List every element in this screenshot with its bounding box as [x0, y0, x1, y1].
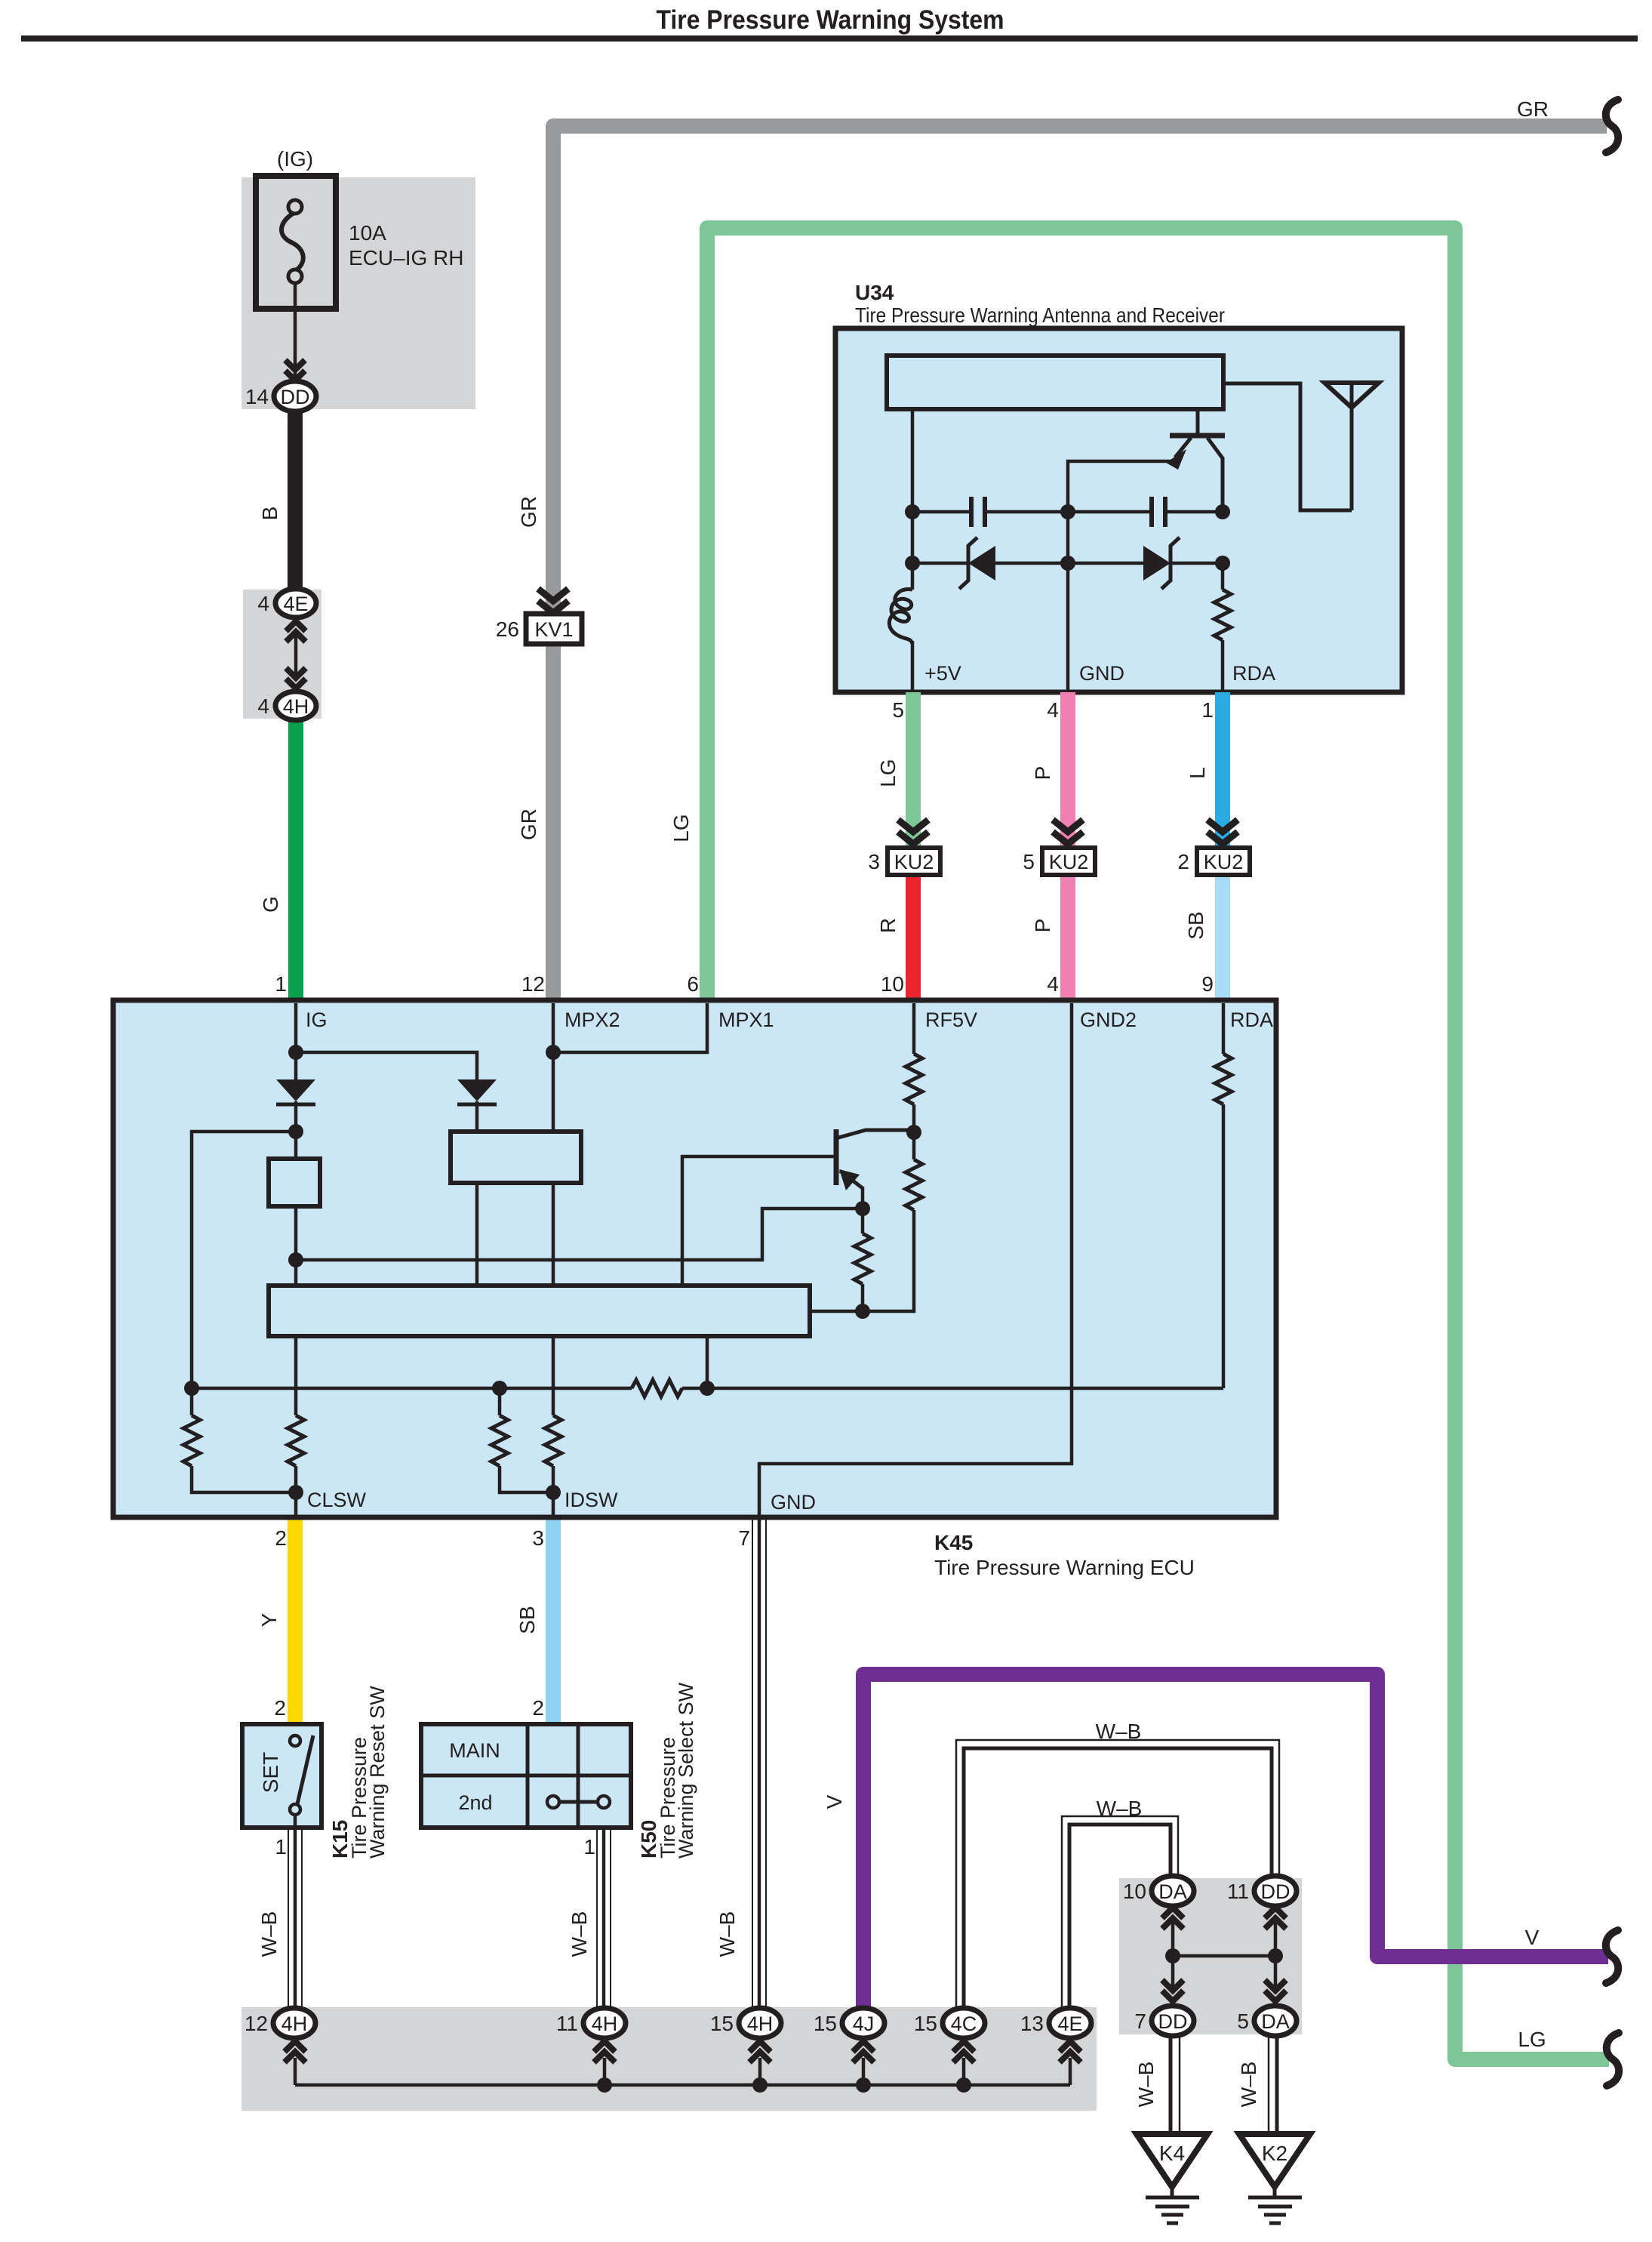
svg-text:2: 2 — [274, 1696, 286, 1720]
svg-text:KV1: KV1 — [534, 618, 573, 641]
node rail IDSW-left — [492, 1381, 507, 1396]
arrow up into 11 4H — [594, 2041, 615, 2052]
wire W-B 5 DA to ground K2 — [1268, 2036, 1270, 2134]
svg-text:Y: Y — [257, 1612, 281, 1627]
title rule line — [21, 35, 1638, 42]
svg-text:B: B — [258, 507, 281, 521]
svg-text:V: V — [823, 1794, 846, 1809]
connector box 3 KU2 — [888, 848, 940, 875]
connector oval 15 4C — [943, 2008, 985, 2038]
svg-text:Tire Pressure Warning ECU: Tire Pressure Warning ECU — [934, 1556, 1195, 1579]
wire B (black) fuse DD to 4E — [288, 408, 303, 591]
wire IDSW drop from bus — [552, 1336, 555, 1415]
svg-text:11: 11 — [556, 2012, 578, 2035]
svg-text:4H: 4H — [281, 2013, 308, 2035]
transistor Q (ECU) emitter with arrow — [840, 1171, 863, 1188]
zener diode D1 (points left) — [912, 562, 968, 565]
svg-text:LG: LG — [1518, 2028, 1546, 2051]
svg-text:MAIN: MAIN — [449, 1739, 500, 1762]
connector shading 4E/4H column — [243, 590, 321, 719]
ground K4 — [1137, 2134, 1207, 2187]
svg-text:W–B: W–B — [715, 1911, 739, 1957]
resistor R7 (IDSW-left) — [498, 1388, 502, 1415]
node resistor bottom — [855, 1304, 870, 1319]
node CLSW — [288, 1485, 303, 1500]
wire R2 to bus — [810, 1210, 914, 1311]
svg-text:15: 15 — [914, 2012, 937, 2035]
wire IG node to diode D2 — [296, 1052, 477, 1079]
wire break squiggle GR — [1606, 100, 1618, 152]
svg-text:K2: K2 — [1262, 2142, 1287, 2165]
wire RF5V internal — [912, 1003, 916, 1054]
svg-text:4: 4 — [257, 694, 269, 718]
node collector junction — [906, 1125, 921, 1140]
fuse contact top — [288, 200, 302, 214]
transistor Q (U34) emitter with arrow — [1175, 438, 1191, 457]
svg-text:4E: 4E — [283, 593, 308, 615]
svg-text:W–B: W–B — [1097, 1797, 1143, 1820]
wire square to CLSW — [294, 1206, 298, 1415]
wire W-B loop 4E to 10 DA — [1062, 1816, 1178, 2009]
svg-text:RF5V: RF5V — [925, 1009, 977, 1031]
wire CLSW to pin — [294, 1492, 298, 1517]
wire break squiggle V — [1606, 1930, 1618, 1983]
wire IC to antenna — [1223, 383, 1352, 510]
svg-text:W–B: W–B — [1096, 1720, 1142, 1743]
connector oval 4H — [275, 691, 316, 720]
U34 Tire Pressure Warning Antenna and Receiver box — [835, 328, 1402, 692]
connector oval 10 DA — [1152, 1876, 1194, 1906]
resistor R3 (emitter) — [854, 1233, 871, 1284]
svg-text:5: 5 — [892, 698, 904, 722]
wire L U34 pin1 to KU2 — [1215, 692, 1230, 861]
svg-text:1: 1 — [275, 972, 287, 996]
inductor L1 — [889, 589, 912, 644]
arrow into KU2 no.5 — [1053, 820, 1083, 832]
svg-text:7: 7 — [738, 1526, 750, 1550]
svg-text:CLSW: CLSW — [307, 1489, 367, 1511]
svg-text:1: 1 — [275, 1835, 287, 1859]
wire LG (light green) MPX1 loop to bottom break — [707, 228, 1609, 2059]
zener diode D2 (points right) — [1068, 562, 1143, 565]
svg-text:IG: IG — [306, 1009, 328, 1031]
resistor R4 (horizontal in rail) — [632, 1380, 682, 1397]
svg-text:(IG): (IG) — [277, 147, 313, 171]
wire W-B loop 4C to 11 DD — [956, 1740, 1279, 2009]
arrow into DD (double chevron down) — [285, 360, 305, 370]
svg-text:3: 3 — [532, 1526, 544, 1550]
svg-text:Warning Reset SW: Warning Reset SW — [366, 1686, 389, 1859]
node dots DA/DD — [1165, 1948, 1180, 1963]
svg-text:6: 6 — [687, 972, 699, 996]
svg-text:11: 11 — [1227, 1880, 1249, 1903]
wire W-B ECU GND to connector 15 4H — [752, 1517, 753, 2009]
connector oval 12 4H — [273, 2008, 315, 2038]
wire Y (yellow) CLSW to K15 — [288, 1517, 303, 1724]
arrow up into 15 4C — [953, 2041, 974, 2052]
DA/DD joint wires — [1171, 1921, 1175, 1993]
svg-text:U34: U34 — [855, 281, 894, 304]
arrow down into 5 DA — [1265, 1980, 1286, 1991]
node dots zener row — [905, 556, 920, 571]
svg-text:LG: LG — [876, 759, 900, 787]
svg-text:P: P — [1031, 919, 1054, 933]
arrow down into 4H — [286, 668, 306, 678]
svg-text:4H: 4H — [592, 2013, 618, 2035]
connector oval 7 DD — [1152, 2006, 1194, 2036]
node emitter — [855, 1201, 870, 1216]
svg-text:12: 12 — [521, 972, 545, 996]
connector oval 13 4E — [1049, 2008, 1091, 2038]
switch contacts K50 (2nd row) — [558, 1800, 598, 1804]
resistor R8 (IDSW) — [545, 1415, 561, 1466]
wire break squiggle LG — [1607, 2033, 1619, 2086]
svg-text:GND2: GND2 — [1080, 1009, 1137, 1031]
svg-text:MPX1: MPX1 — [718, 1009, 774, 1031]
relay coil box (square) — [269, 1159, 320, 1206]
connector oval 15 4J — [842, 2008, 884, 2038]
wire GND vertical — [1066, 512, 1070, 692]
node MPX junction — [546, 1045, 561, 1060]
svg-text:ECU–IG RH: ECU–IG RH — [349, 246, 463, 269]
svg-text:DA: DA — [1261, 2010, 1290, 2033]
svg-text:2: 2 — [1177, 850, 1189, 873]
K15 Tire Pressure Warning Reset SW box — [242, 1724, 321, 1828]
fuse 10A ECU-IG RH box — [256, 176, 336, 309]
svg-text:9: 9 — [1201, 972, 1214, 996]
svg-text:3: 3 — [868, 850, 880, 873]
svg-text:DA: DA — [1158, 1880, 1187, 1903]
svg-text:10A: 10A — [349, 221, 386, 245]
svg-text:P: P — [1031, 766, 1054, 781]
K45 Tire Pressure Warning ECU box — [113, 1000, 1276, 1517]
wire G (green) 4H to ECU IG pin1 — [288, 717, 303, 1000]
arrow into KU2 no.3 — [898, 820, 928, 832]
node IDSW — [546, 1485, 561, 1500]
svg-text:IDSW: IDSW — [565, 1489, 618, 1511]
svg-text:15: 15 — [814, 2012, 837, 2035]
wire fuse to connector DD — [294, 282, 297, 377]
svg-text:4: 4 — [257, 592, 269, 615]
svg-text:Tire Pressure Warning Antenna: Tire Pressure Warning Antenna and Receiv… — [855, 303, 1225, 327]
transistor Q (ECU) base wire — [682, 1156, 834, 1286]
svg-text:MPX2: MPX2 — [565, 1009, 620, 1031]
svg-text:GR: GR — [517, 496, 540, 528]
svg-text:DD: DD — [1261, 1880, 1291, 1903]
transistor Q (ECU) collector — [838, 1130, 911, 1138]
fuse element S-curve — [281, 212, 303, 271]
svg-text:DD: DD — [281, 386, 310, 408]
transistor Q (U34) right leg — [1207, 438, 1223, 512]
wire P U34 pin4 to ECU GND2 — [1060, 692, 1075, 1000]
svg-text:2: 2 — [532, 1696, 544, 1720]
arrow up into 15 4H — [749, 2041, 771, 2052]
wire RDA internal — [1222, 1003, 1226, 1054]
transistor Q (ECU) base bar — [834, 1129, 839, 1185]
capacitor C1 — [912, 510, 971, 514]
svg-text:RDA: RDA — [1232, 662, 1275, 685]
wire R KU2 to ECU RF5V — [906, 861, 921, 1000]
node long-bus branch — [288, 1252, 303, 1267]
junction block ground shading (fuse area) — [241, 177, 475, 409]
switch contact bottom — [290, 1804, 300, 1815]
arrow up into 11 DD — [1265, 1908, 1286, 1918]
svg-text:SB: SB — [1184, 911, 1207, 939]
svg-text:W–B: W–B — [257, 1911, 281, 1957]
svg-text:13: 13 — [1020, 2012, 1044, 2035]
svg-text:SET: SET — [259, 1752, 282, 1793]
svg-text:G: G — [259, 896, 282, 913]
arrow into KV1 (double chevron down) — [538, 589, 568, 601]
wire +5V branch (left vertical) — [911, 409, 915, 590]
wire SB IDSW to K50 — [546, 1517, 561, 1724]
resistor R (U34 RDA) — [1221, 563, 1225, 590]
svg-text:W–B: W–B — [1134, 2062, 1158, 2108]
svg-text:14: 14 — [245, 385, 269, 408]
switch blade K15 — [297, 1735, 313, 1807]
arrow up into 15 4J — [853, 2041, 874, 2052]
connector oval 5 DA — [1254, 2006, 1297, 2036]
svg-text:12: 12 — [245, 2012, 268, 2035]
ground K2 — [1239, 2134, 1310, 2187]
svg-text:DD: DD — [1158, 2010, 1188, 2033]
svg-text:Tire Pressure Warning System: Tire Pressure Warning System — [657, 5, 1004, 35]
wire SB KU2 to ECU RDA — [1215, 861, 1230, 1000]
svg-text:+5V: +5V — [924, 662, 961, 685]
node lower rail at bus drop — [700, 1381, 715, 1396]
connector oval 11 4H — [583, 2008, 626, 2038]
svg-text:4E: 4E — [1057, 2013, 1082, 2035]
node below D1 — [288, 1124, 303, 1139]
resistor R1 (RF5V) — [906, 1054, 922, 1104]
K50 Tire Pressure Warning Select SW box — [421, 1724, 631, 1828]
wire base to GND node — [1068, 461, 1172, 512]
svg-text:1: 1 — [583, 1835, 595, 1859]
wire IG internal — [294, 1003, 298, 1079]
wire contact to box bottom — [294, 1815, 297, 1828]
wire D1 node to left branch — [192, 1132, 296, 1415]
wire inductor to +5V pin — [911, 641, 915, 692]
transistor Q (U34) base bar — [1170, 433, 1225, 439]
svg-text:4: 4 — [1047, 972, 1059, 996]
connector box 2 KU2 — [1197, 848, 1250, 875]
wire MPX1 internal — [553, 1003, 707, 1052]
svg-text:SB: SB — [515, 1606, 539, 1634]
arrow down into 7 DD — [1162, 1980, 1183, 1991]
svg-text:L: L — [1186, 767, 1209, 779]
svg-text:4J: 4J — [853, 2013, 875, 2035]
svg-text:15: 15 — [710, 2012, 734, 2035]
antenna symbol — [1324, 383, 1379, 408]
wire IDSW to pin — [552, 1492, 555, 1517]
svg-text:2nd: 2nd — [458, 1791, 492, 1814]
arrow up into 12 4H — [285, 2041, 306, 2052]
svg-text:W–B: W–B — [568, 1911, 591, 1957]
svg-text:KU2: KU2 — [1049, 851, 1089, 873]
fuse contact bottom — [288, 269, 302, 283]
resistor R9 (RDA) — [1215, 1054, 1232, 1104]
arrow up into 10 DA — [1162, 1908, 1183, 1918]
arrow up into 13 4E — [1060, 2041, 1081, 2052]
connector box 5 KU2 — [1042, 848, 1095, 875]
svg-text:5: 5 — [1237, 2009, 1249, 2033]
wire W-B K15 to connector 12 4H — [288, 1828, 289, 2009]
K50 grid dividers — [526, 1724, 530, 1828]
svg-text:GR: GR — [1517, 97, 1549, 121]
connector shading bottom bar — [241, 2007, 1097, 2111]
svg-text:GR: GR — [517, 808, 540, 840]
node IG branch — [288, 1045, 303, 1060]
connector oval 15 4H — [739, 2008, 781, 2038]
node rail left — [184, 1381, 199, 1396]
lower rail horizontal — [192, 1387, 632, 1390]
bottom bar ground rail — [295, 2083, 1070, 2087]
wire GR (gray) from KV1/ECU pin12 up and right to break — [553, 126, 1607, 1000]
svg-text:K4: K4 — [1159, 2142, 1185, 2165]
resistor R6 (CLSW) — [288, 1415, 304, 1466]
svg-text:KU2: KU2 — [894, 851, 934, 873]
node dots cap row — [905, 504, 920, 519]
svg-text:10: 10 — [881, 972, 904, 996]
svg-text:5: 5 — [1023, 850, 1035, 873]
connector box 26 KV1 — [526, 614, 582, 644]
resistor R2 (RF5V lower) — [906, 1159, 922, 1210]
internal bus bar — [269, 1286, 810, 1336]
svg-text:KU2: KU2 — [1204, 851, 1244, 873]
svg-text:W–B: W–B — [1237, 2062, 1260, 2108]
svg-text:26: 26 — [496, 617, 519, 641]
wire MPX2 internal — [552, 1003, 555, 1286]
svg-text:R: R — [876, 918, 900, 933]
wire V (violet) from 4J to right break — [863, 1674, 1608, 2009]
inner module rectangle (receiver IC) — [887, 356, 1223, 409]
svg-text:GND: GND — [771, 1491, 816, 1514]
svg-text:2: 2 — [275, 1526, 287, 1550]
wire between 4E and 4H — [294, 634, 298, 676]
svg-text:7: 7 — [1134, 2009, 1146, 2033]
switch contact top — [290, 1735, 300, 1746]
wire internal long horizontal — [296, 1209, 863, 1260]
svg-text:1: 1 — [1201, 698, 1214, 722]
svg-text:4C: 4C — [951, 2013, 977, 2035]
wire W-B 7 DD to ground K4 — [1169, 2036, 1173, 2134]
svg-text:4H: 4H — [283, 695, 309, 718]
rail node dots — [597, 2077, 612, 2093]
svg-text:LG: LG — [669, 814, 693, 842]
capacitor C2 — [1068, 510, 1152, 514]
wire W-B K50 to connector 11 4H — [596, 1828, 598, 2009]
module rectangle (wide) — [451, 1132, 581, 1183]
connector oval 11 DD — [1254, 1876, 1297, 1906]
resistor R5 (left CLSW pullup) — [183, 1415, 200, 1466]
svg-text:K45: K45 — [934, 1531, 973, 1554]
rail risers to connectors — [294, 2058, 297, 2085]
svg-text:RDA: RDA — [1230, 1009, 1273, 1031]
svg-text:4H: 4H — [747, 2013, 774, 2035]
connector oval 14 DD — [274, 381, 316, 411]
svg-text:10: 10 — [1123, 1880, 1146, 1903]
diode D1 (ECU, down) — [276, 1079, 315, 1101]
connector oval 4E — [275, 589, 316, 617]
arrow up into 4E — [286, 621, 306, 631]
arrow into KU2 no.2 — [1207, 820, 1238, 832]
connector shading DA/DD block — [1119, 1878, 1302, 2034]
svg-text:V: V — [1525, 1926, 1540, 1949]
svg-text:4: 4 — [1047, 698, 1059, 722]
svg-text:GND: GND — [1079, 662, 1124, 685]
wire GND2 internal to GND pin — [759, 1003, 1072, 1517]
wire LG U34 pin5 to KU2 — [906, 692, 921, 861]
transistor Q (U34) collector — [1196, 409, 1200, 433]
svg-text:Warning Select SW: Warning Select SW — [675, 1682, 697, 1859]
diode D2 (ECU, down) — [457, 1079, 497, 1101]
wire bus to lower rail — [706, 1336, 709, 1388]
